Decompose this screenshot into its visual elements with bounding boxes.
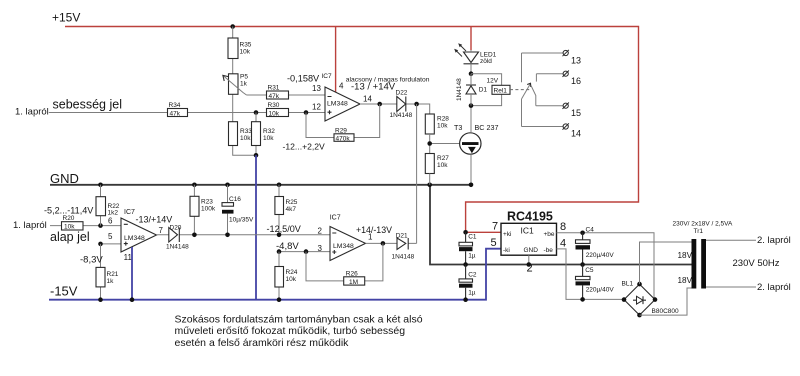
svg-text:10k: 10k — [269, 110, 280, 117]
svg-text:10k: 10k — [64, 224, 75, 231]
svg-text:4: 4 — [339, 82, 344, 91]
svg-text:R27: R27 — [437, 155, 449, 162]
svg-text:10k: 10k — [437, 123, 448, 130]
svg-text:1N4148: 1N4148 — [166, 243, 189, 250]
svg-text:esetén a felső áramköri rész m: esetén a felső áramköri rész működik — [175, 337, 350, 349]
svg-text:LM348: LM348 — [333, 243, 354, 250]
svg-text:6: 6 — [108, 216, 113, 225]
svg-text:10k: 10k — [240, 49, 251, 56]
svg-text:47k: 47k — [269, 93, 280, 100]
svg-text:R35: R35 — [240, 42, 252, 49]
svg-text:alacsony / magas fordulaton: alacsony / magas fordulaton — [346, 76, 430, 83]
svg-text:RC4195: RC4195 — [507, 210, 553, 224]
svg-text:10k: 10k — [263, 135, 274, 142]
svg-text:R20: R20 — [63, 215, 75, 222]
svg-text:12: 12 — [312, 102, 321, 111]
svg-text:2: 2 — [318, 226, 323, 235]
svg-text:Szokásos fordulatszám tartomán: Szokásos fordulatszám tartományban csak … — [175, 313, 423, 325]
svg-text:B80C800: B80C800 — [652, 308, 679, 315]
svg-text:-15V: -15V — [50, 284, 78, 299]
svg-text:-be: -be — [544, 247, 554, 254]
svg-text:-ki: -ki — [503, 247, 510, 254]
svg-text:R34: R34 — [169, 102, 181, 109]
svg-text:D21: D21 — [396, 233, 408, 240]
svg-text:7: 7 — [492, 221, 498, 233]
svg-text:1. lapról: 1. lapról — [13, 220, 47, 231]
svg-text:R32: R32 — [263, 128, 275, 135]
svg-text:C5: C5 — [585, 267, 594, 274]
svg-text:10µ/35V: 10µ/35V — [229, 217, 254, 224]
svg-text:R28: R28 — [437, 116, 449, 123]
svg-text:+ki: +ki — [503, 231, 512, 238]
svg-text:+15V: +15V — [52, 11, 80, 25]
svg-text:1. lapról: 1. lapról — [15, 107, 49, 118]
svg-text:BC 237: BC 237 — [475, 123, 499, 132]
svg-text:220µ/40V: 220µ/40V — [586, 286, 615, 293]
svg-text:230V 50Hz: 230V 50Hz — [733, 258, 780, 269]
svg-text:10k: 10k — [286, 276, 297, 283]
svg-text:5: 5 — [491, 237, 497, 249]
svg-text:10k: 10k — [437, 162, 448, 169]
svg-text:GND: GND — [524, 247, 539, 254]
svg-text:-13/+14V: -13/+14V — [136, 214, 173, 224]
svg-text:+14/-13V: +14/-13V — [356, 225, 392, 235]
svg-text:GND: GND — [50, 171, 79, 186]
svg-text:16: 16 — [571, 76, 581, 86]
svg-text:alap jel: alap jel — [50, 230, 90, 244]
svg-text:1µ: 1µ — [468, 253, 476, 260]
svg-text:1N4148: 1N4148 — [390, 112, 413, 119]
svg-text:13: 13 — [571, 55, 581, 65]
svg-text:Tr1: Tr1 — [694, 228, 704, 235]
svg-text:BL1: BL1 — [622, 280, 634, 287]
svg-text:+be: +be — [544, 231, 555, 238]
svg-text:R33: R33 — [240, 128, 252, 135]
svg-text:LM348: LM348 — [124, 235, 145, 242]
svg-text:R24: R24 — [286, 269, 298, 276]
svg-text:R21: R21 — [107, 271, 119, 278]
svg-text:5: 5 — [108, 232, 113, 241]
svg-text:R29: R29 — [335, 127, 347, 134]
svg-text:P5: P5 — [240, 74, 248, 81]
svg-text:-0,158V: -0,158V — [287, 74, 320, 84]
svg-text:230V/ 2x18V / 2,5VA: 230V/ 2x18V / 2,5VA — [673, 220, 734, 227]
svg-text:2. lapról: 2. lapról — [757, 282, 791, 293]
svg-text:1: 1 — [368, 232, 373, 241]
svg-text:IC1: IC1 — [521, 226, 535, 236]
svg-text:12V: 12V — [487, 78, 499, 85]
svg-text:10k: 10k — [240, 135, 251, 142]
svg-text:1N4148: 1N4148 — [392, 254, 415, 261]
svg-text:1M: 1M — [349, 279, 358, 286]
svg-text:7: 7 — [159, 226, 164, 235]
svg-text:D1: D1 — [479, 87, 488, 94]
svg-text:D20: D20 — [170, 225, 182, 232]
svg-text:1µ: 1µ — [468, 289, 476, 296]
svg-text:IC7: IC7 — [330, 215, 341, 222]
svg-text:1N4148: 1N4148 — [456, 78, 463, 101]
svg-text:R30: R30 — [268, 102, 280, 109]
svg-text:C2: C2 — [468, 271, 477, 278]
svg-text:-5,2...-11,4V: -5,2...-11,4V — [44, 205, 94, 215]
svg-text:470k: 470k — [336, 135, 351, 142]
svg-text:-8,3V: -8,3V — [80, 255, 103, 266]
svg-text:IC7: IC7 — [322, 73, 333, 80]
svg-text:R25: R25 — [286, 199, 298, 206]
svg-text:D22: D22 — [396, 90, 408, 97]
svg-text:14: 14 — [571, 129, 581, 139]
svg-text:C1: C1 — [468, 233, 477, 240]
svg-text:18V: 18V — [678, 276, 693, 285]
svg-text:15: 15 — [571, 108, 581, 118]
svg-text:-12...+2,2V: -12...+2,2V — [283, 142, 326, 152]
svg-text:47k: 47k — [170, 110, 181, 117]
svg-text:LM348: LM348 — [327, 100, 348, 107]
svg-text:14: 14 — [363, 94, 372, 103]
svg-text:T3: T3 — [454, 123, 462, 132]
svg-text:1k: 1k — [107, 278, 115, 285]
svg-text:C16: C16 — [229, 196, 241, 203]
svg-text:13: 13 — [312, 84, 321, 93]
svg-text:sebesség jel: sebesség jel — [53, 97, 123, 111]
svg-text:zöld: zöld — [480, 58, 492, 65]
svg-text:2. lapról: 2. lapról — [757, 235, 791, 246]
svg-text:4: 4 — [560, 237, 566, 249]
svg-text:4k7: 4k7 — [286, 206, 297, 213]
svg-text:-12,5/0V: -12,5/0V — [267, 224, 302, 234]
svg-text:IC7: IC7 — [124, 209, 135, 216]
svg-text:18V: 18V — [678, 251, 693, 260]
svg-text:8: 8 — [560, 221, 566, 233]
svg-text:C4: C4 — [586, 227, 595, 234]
svg-text:R23: R23 — [201, 199, 213, 206]
svg-text:R31: R31 — [268, 85, 280, 92]
svg-text:220µ/40V: 220µ/40V — [586, 252, 615, 259]
svg-text:Rel1: Rel1 — [494, 87, 508, 94]
svg-text:1k: 1k — [240, 81, 248, 88]
svg-text:műveleti erősítő fokozat működ: műveleti erősítő fokozat működik, turbó … — [175, 325, 406, 337]
svg-text:R26: R26 — [346, 270, 358, 277]
svg-text:100k: 100k — [201, 206, 216, 213]
